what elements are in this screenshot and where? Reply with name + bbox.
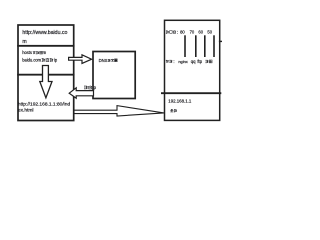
svg-text:baidu.com: baidu.com (22, 58, 41, 63)
svg-text:50: 50 (207, 30, 212, 35)
svg-text:70: 70 (190, 30, 195, 35)
svg-text:ftp: ftp (197, 59, 202, 64)
svg-text:m: m (22, 39, 26, 45)
divider line in host box (161, 92, 221, 94)
label: corresponding ip (84, 86, 88, 89)
tick on host right edge (219, 40, 222, 42)
svg-text:http://www.baidu.co: http://www.baidu.co (22, 30, 67, 36)
svg-text:qq: qq (191, 59, 196, 64)
box: web host 192.168.1.1 (165, 20, 220, 120)
box: client host (request URL) (18, 75, 74, 121)
block arrow: right (hosts lookup to DNS) (69, 55, 92, 64)
label: port numbers row (166, 30, 169, 33)
svg-text:http://192.168.1.1:80/ind: http://192.168.1.1:80/ind (18, 101, 71, 107)
port line 70-qq (195, 35, 197, 57)
block arrow: down (browser to request) (40, 66, 52, 98)
svg-text:nginx: nginx (178, 59, 187, 64)
svg-text:80: 80 (180, 30, 185, 35)
svg-text:hosts: hosts (22, 50, 32, 55)
label: process row (166, 60, 169, 63)
port line 50-mail (213, 35, 215, 57)
box: DNS server (93, 52, 135, 99)
port line 60-ftp (204, 35, 206, 57)
label: host (zhuji) (170, 109, 173, 112)
block arrow: left (DNS returns ip) (69, 88, 93, 98)
box: browser URL (http://www.baidu.com) (18, 25, 74, 46)
svg-text:ip: ip (93, 85, 97, 90)
svg-text:DNS: DNS (99, 58, 108, 63)
svg-text:192.168.1.1: 192.168.1.1 (168, 98, 192, 103)
svg-text:60: 60 (198, 30, 203, 35)
box: hosts file lookup (18, 46, 74, 75)
long thin arrow: client to web host (74, 106, 164, 116)
svg-text:ex.html: ex.html (18, 108, 34, 114)
svg-text::: : (177, 30, 178, 35)
svg-text::: : (173, 59, 174, 64)
port line 80-nginx (184, 35, 186, 57)
